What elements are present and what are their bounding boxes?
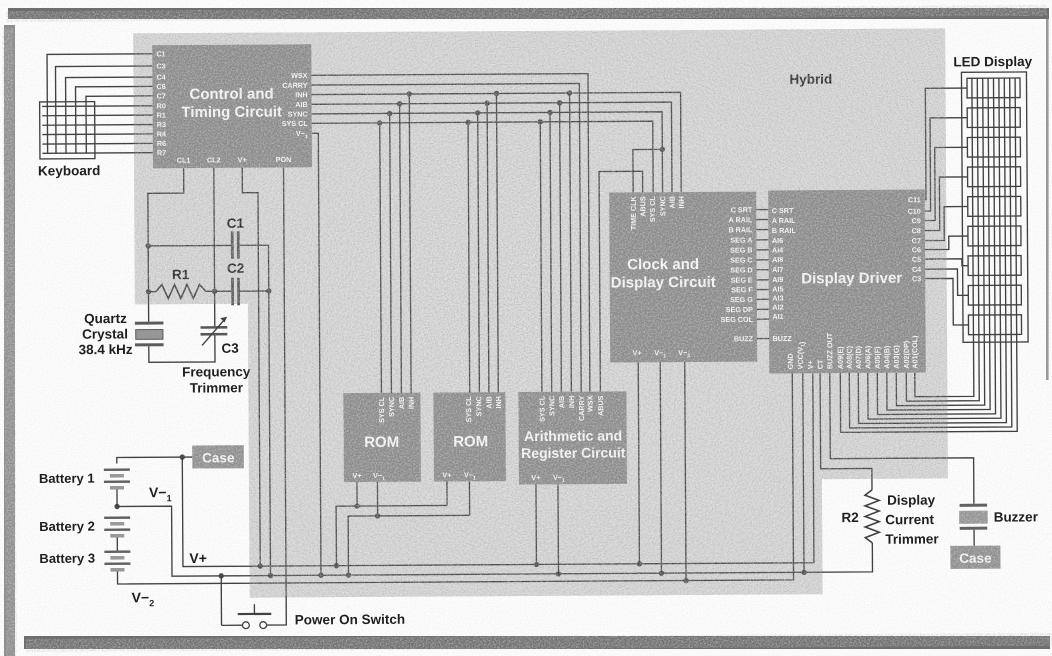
wire C1 leads [148,244,231,247]
wire keyboard row R6 [42,142,152,145]
border frame top bar [8,8,1049,19]
wire A09 segment line [838,78,1017,432]
case box left [192,445,244,468]
wire C1/C2 bypass to V-1 rail [266,245,273,578]
wire A03 segment line [894,78,984,405]
wire arithmetic V+ drop [535,484,537,564]
border frame right line [1046,19,1049,380]
keyboard matrix [40,102,95,159]
LED digit 2 [967,108,1020,128]
wire arithmetic V-1 drop [557,484,560,573]
border frame left bar [4,25,15,656]
LED digit 8 [968,285,1021,305]
battery B3 [104,550,130,553]
wire ROM V+ subnet [336,481,448,565]
LED digit 6 [968,226,1021,246]
capacitor C1 [231,231,234,259]
IC U4 arithmetic and register circuit [518,391,627,484]
wire CT to R2 [820,373,872,490]
wire V-2 rail [116,373,793,586]
wire keyboard column C1 [47,54,153,154]
LED digit 5 [968,196,1021,216]
wire V-1 rail [114,499,872,579]
power on switch [221,576,271,629]
wire BUZZ OUT to buzzer [830,372,974,504]
buzzer [960,504,988,507]
LED digit 3 [967,137,1020,157]
wire TIME CLK net [633,147,665,193]
wire C3 digit line [925,278,968,325]
wire keyboard row R0 [42,105,152,108]
battery B1 [104,468,130,471]
LED display outer box [961,72,1028,342]
IC U5 clock and display circuit [609,192,757,363]
wire PON net [264,167,286,625]
IC U3 ROM 2 [433,392,506,482]
wire INH net [312,90,683,397]
IC U2 ROM 1 [343,393,421,483]
wire C10 digit line [924,118,968,211]
wire clock V+ drop [638,362,639,563]
wire keyboard column C4 [66,77,153,154]
wire CARRY net [312,83,582,393]
trimmer capacitor C3 [200,326,227,329]
wire keyboard row R7 [42,152,152,155]
wire ABUS net [599,171,644,391]
wire C4 digit line [925,269,968,296]
wire CL1 net [145,168,185,322]
wire ROM V-1 subnet [348,481,470,575]
wire display driver VCC(V1) drop [803,373,804,572]
wire A06 segment line [866,78,1001,419]
resistor R1 [156,284,206,298]
wire C7 digit line [925,206,968,240]
wire V+ pin of control [242,168,263,569]
LED digit 9 [968,315,1021,335]
hybrid substrate panel [133,28,948,598]
wire A02 segment line [904,78,979,401]
LED digit 4 [968,167,1021,187]
LED digit 1 [967,78,1020,98]
wire AIB net [312,99,674,396]
case box right [950,546,1000,569]
wire WSX net [311,74,589,394]
resistor R2 [865,490,879,543]
wire keyboard row R4 [42,133,152,136]
quartz crystal [135,322,164,325]
wire clock V-1 drop [660,362,661,573]
wire C11 digit line [924,88,968,199]
wire C8 digit line [925,177,968,231]
wire clock to display driver connectors [756,210,769,339]
IC U6 display driver [768,190,926,374]
wire clock V-2 drop [685,362,686,580]
wire A01 segment line [913,78,974,396]
wire C5 digit line [925,259,968,266]
wire CL2 net [211,168,217,326]
wire SYNC net [312,109,664,396]
wire V-1 from control block [312,133,321,575]
wire A04 segment line [885,78,990,410]
wire buzzer to case [973,530,975,546]
wire keyboard column C3 [55,66,152,154]
wire crystal bottom loop [149,335,215,362]
LED digit 7 [968,256,1021,276]
battery B2 [104,516,130,519]
capacitor C2 [231,278,234,306]
wire keyboard column C6 [76,86,153,153]
border frame bottom bar [24,636,1050,649]
wire keyboard row R3 [42,124,152,127]
IC U1 control and timing circuit [152,44,312,168]
wire C9 digit line [924,147,967,220]
wire A05 segment line [875,78,995,414]
wire keyboard row R1 [42,114,152,117]
wire C6 digit line [925,236,968,249]
wire keyboard column C7 [86,96,153,154]
wire A08 segment line [847,78,1011,428]
wire C2 leads [215,290,232,292]
wire A07 segment line [856,78,1006,423]
wire SYS CL net [312,119,655,397]
wire V+ rail [116,373,814,569]
